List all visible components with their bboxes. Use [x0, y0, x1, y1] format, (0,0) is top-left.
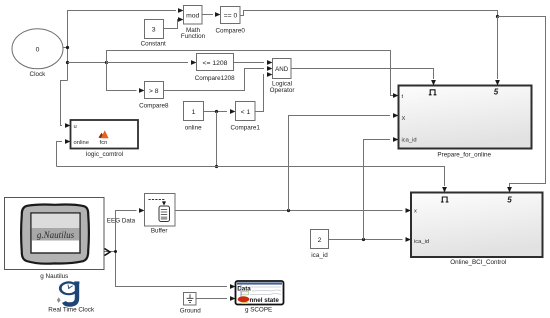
wire clock to x106 junction — [68, 62, 107, 64]
node x106 junction — [105, 61, 108, 64]
svg-text:logic_comtrol: logic_comtrol — [86, 151, 123, 158]
Clock — [12, 29, 63, 78]
svg-text:u: u — [74, 124, 77, 130]
svg-text:Compare1: Compare1 — [230, 125, 260, 132]
logic_control — [71, 120, 139, 158]
matlab icon — [99, 133, 104, 139]
Compare1 — [230, 102, 260, 132]
wire Buffer to Prepare X — [289, 116, 391, 211]
svg-text:Real Time Clock: Real Time Clock — [48, 307, 95, 314]
svg-text:g.Nautilus: g.Nautilus — [37, 230, 75, 240]
svg-text:ica_id: ica_id — [402, 138, 417, 144]
node buffer junction — [287, 209, 290, 212]
node clock-out junction — [66, 46, 69, 49]
enable icon — [429, 90, 437, 95]
wire Compare1208 to AND in1 — [234, 62, 265, 64]
svg-text:fcn: fcn — [100, 140, 108, 146]
wire Compare0 to Online trigger — [498, 17, 546, 188]
svg-text:<= 1208: <= 1208 — [203, 60, 228, 67]
Prepare_for_online — [399, 86, 532, 159]
svg-text:Compare0: Compare0 — [215, 28, 245, 35]
svg-text:Compare1208: Compare1208 — [195, 75, 235, 82]
enable icon — [441, 197, 449, 202]
svg-text:3: 3 — [152, 27, 156, 34]
svg-text:AND: AND — [275, 66, 289, 73]
svg-text:nnel state: nnel state — [250, 297, 280, 304]
output chevron — [105, 249, 111, 256]
wire Ground to scope — [196, 298, 227, 300]
Compare1208 — [195, 54, 235, 82]
svg-text:Clock: Clock — [30, 71, 47, 78]
g.Nautilus — [5, 198, 111, 281]
wire to Compare1208 — [107, 62, 189, 64]
wire Compare0 long top line — [240, 11, 498, 17]
svg-text:mod: mod — [186, 12, 199, 19]
Online_BCI_Control — [411, 193, 543, 267]
svg-text:online: online — [185, 125, 202, 132]
node eeg junction — [114, 250, 117, 253]
svg-text:Constant: Constant — [141, 41, 166, 48]
wire clock vertical trunk — [68, 11, 177, 81]
svg-text:2: 2 — [318, 237, 322, 244]
g SCOPE — [236, 281, 284, 314]
wire Compare0 down to Prepare trigger — [497, 17, 499, 80]
svg-text:x: x — [414, 209, 417, 215]
svg-text:5: 5 — [494, 88, 499, 97]
svg-text:Online_BCI_Control: Online_BCI_Control — [450, 259, 506, 266]
wire EEG to scope — [116, 252, 228, 287]
svg-text:Ground: Ground — [180, 307, 202, 314]
online constant 1 — [184, 102, 204, 132]
wire Nautilus to Buffer — [104, 211, 137, 252]
svg-text:Prepare_for_online: Prepare_for_online — [437, 152, 491, 159]
node online junction — [215, 110, 218, 113]
svg-text:== 0: == 0 — [224, 13, 238, 20]
svg-text:X: X — [402, 116, 406, 122]
wire AND to Prepare enable — [291, 69, 434, 80]
svg-text:g SCOPE: g SCOPE — [245, 307, 272, 314]
Buffer — [145, 194, 176, 235]
wire ica2 to Online ica_id — [329, 239, 403, 241]
Compare8 — [139, 82, 169, 110]
svg-text:1: 1 — [192, 109, 196, 116]
svg-text:Function: Function — [181, 33, 206, 40]
wire online1 to Compare1 — [204, 111, 228, 113]
wire Compare1 to AND in3 — [255, 75, 264, 112]
math function mod — [181, 6, 206, 41]
AND logical operator — [270, 59, 295, 94]
svg-text:EEG Data: EEG Data — [107, 217, 136, 224]
node online-net junction — [215, 165, 218, 168]
svg-text:ica_id: ica_id — [414, 239, 429, 245]
wire online to logic_control — [57, 142, 63, 167]
wire to Compare8 — [107, 63, 137, 91]
wire clock output — [63, 47, 68, 49]
svg-text:> 8: > 8 — [149, 88, 159, 95]
wire Compare8 to AND in2 — [164, 69, 265, 91]
Compare0 — [215, 7, 245, 35]
wire Constant to mod input2 — [164, 20, 179, 29]
wire mod to Compare0 — [202, 14, 213, 16]
svg-text:Buffer: Buffer — [151, 228, 168, 235]
svg-text:Operator: Operator — [270, 87, 295, 94]
wire to mod input1 arrow — [178, 8, 184, 13]
ica_id constant 2 — [311, 230, 329, 259]
Real Time Clock — [48, 281, 95, 313]
wire online net horizontal — [57, 167, 445, 187]
node ica junction — [362, 238, 365, 241]
svg-text:ica_id: ica_id — [311, 252, 328, 259]
svg-text:0: 0 — [36, 46, 40, 53]
svg-text:< 1: < 1 — [241, 109, 251, 116]
constant 3 — [141, 20, 166, 48]
svg-text:5: 5 — [507, 195, 512, 204]
wire t-line to Prepare_for_online — [107, 51, 395, 96]
svg-text:g Nautilus: g Nautilus — [40, 273, 68, 280]
wire clock to logic_control u — [61, 81, 68, 126]
node Compare0-net junction — [496, 15, 499, 18]
svg-text:Data: Data — [237, 285, 251, 292]
wire Buffer to Online x — [175, 210, 403, 212]
Ground — [180, 293, 202, 315]
wire ica2 to Prepare ica_id — [364, 140, 391, 240]
wire online net down — [216, 112, 218, 167]
svg-text:Compare8: Compare8 — [139, 103, 169, 110]
node clock-branch junction — [66, 61, 69, 64]
svg-text:online: online — [74, 140, 89, 146]
